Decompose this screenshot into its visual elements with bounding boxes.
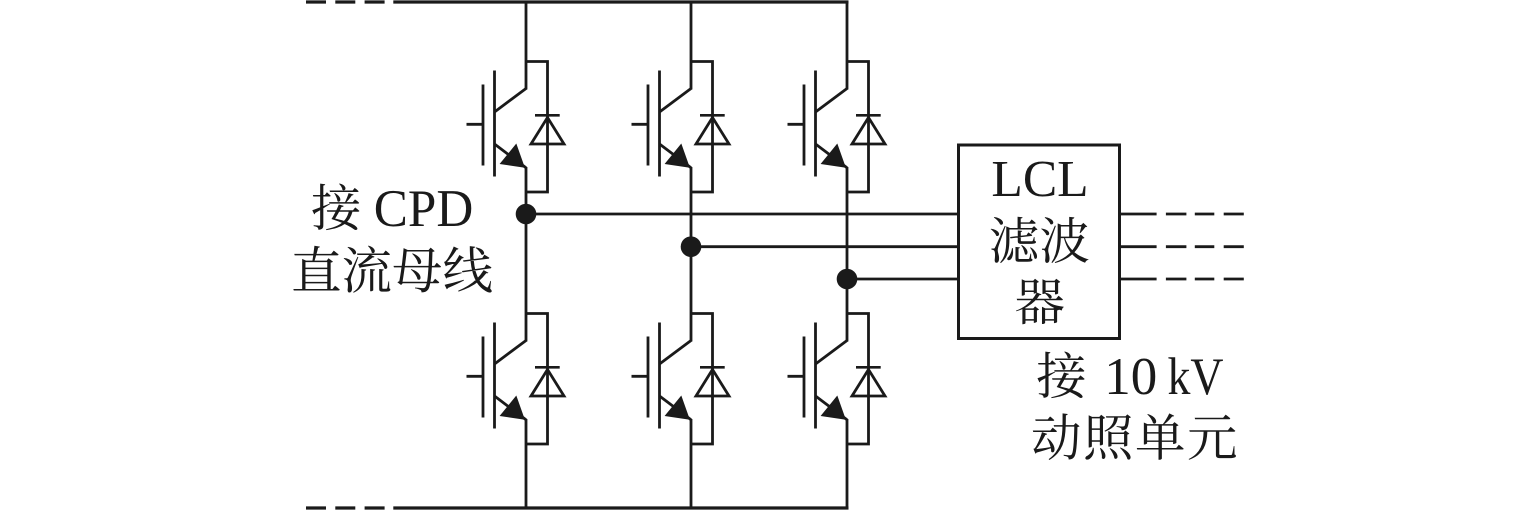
label: 直流母线 line 2 (293, 246, 491, 293)
IGBT Q1 (top, phase A) (467, 71, 527, 177)
label: 滤波 (991, 217, 1089, 263)
DC bus positive (top) (306, 0, 849, 3)
svg-text:10: 10 (1104, 348, 1157, 406)
DC bus negative (bottom) (306, 506, 849, 509)
LCL filter box U1 (959, 145, 1120, 339)
diode D4 (antiparallel) (526, 314, 564, 445)
label: 动照单元 line 2 (1033, 413, 1236, 460)
wire: AC output phase B (dashed) (1120, 245, 1244, 248)
svg-text:kV: kV (1168, 348, 1224, 406)
node phase B junction dot (681, 236, 702, 257)
IGBT Q2 (top, phase B) (632, 71, 692, 177)
wire: leg C vertical (846, 2, 849, 508)
diode D1 (antiparallel) (526, 62, 564, 193)
wire: phase C to LCL filter (847, 278, 959, 281)
svg-text:LCL: LCL (991, 151, 1088, 208)
diode D3 (antiparallel) (847, 62, 885, 193)
IGBT Q4 (bottom, phase A) (467, 323, 527, 429)
wire: leg A vertical (525, 2, 528, 508)
IGBT Q5 (bottom, phase B) (632, 323, 692, 429)
diode D5 (antiparallel) (691, 314, 729, 445)
wire: AC output phase A (dashed) (1120, 213, 1244, 216)
wire: phase B to LCL filter (691, 245, 959, 248)
label: 接 CPD (to CPD DC bus) line 1 (312, 180, 473, 238)
diode D6 (antiparallel) (847, 314, 885, 445)
IGBT Q6 (bottom, phase C) (788, 323, 848, 429)
wire: phase A to LCL filter (526, 213, 959, 216)
svg-text:CPD: CPD (374, 180, 474, 238)
node phase A junction dot (516, 204, 537, 225)
IGBT Q3 (top, phase C) (788, 71, 848, 177)
node phase C junction dot (837, 269, 858, 290)
label: 接 10 kV line 1 (1037, 348, 1223, 406)
wire: AC output phase C (dashed) (1120, 278, 1244, 281)
label: 器 (1016, 279, 1064, 324)
wire: leg B vertical (690, 2, 693, 508)
diode D2 (antiparallel) (691, 62, 729, 193)
